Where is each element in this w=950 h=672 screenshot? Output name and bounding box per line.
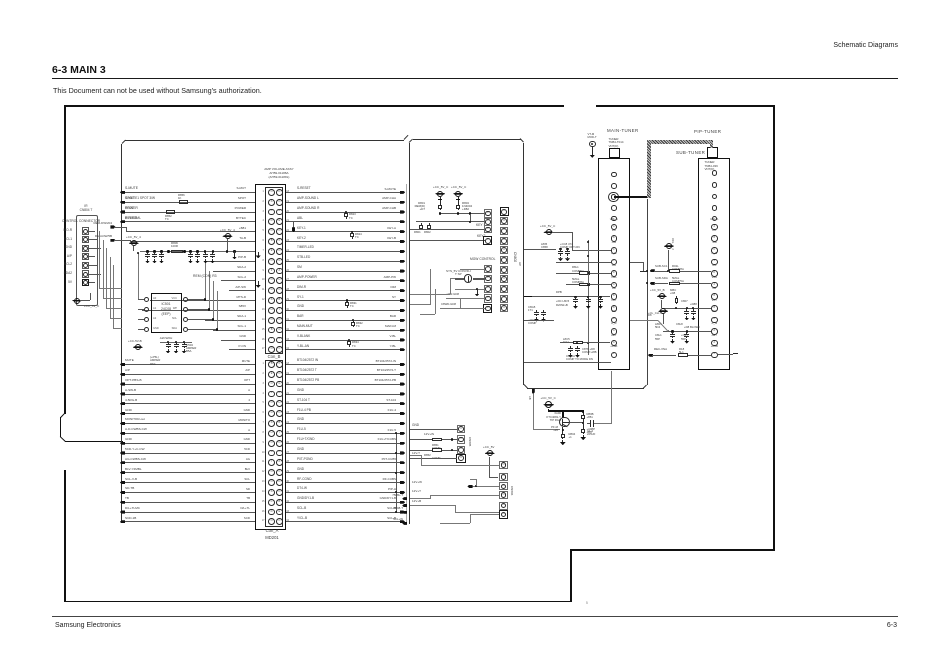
wire row to CN802 pin 7 with ground tap	[455, 288, 485, 291]
wire +DBB row with resistor R18	[648, 354, 653, 357]
power bus wire above IC501	[140, 251, 255, 252]
control connector pin SDA2	[82, 270, 89, 277]
labels C8L1 55P	[655, 334, 662, 337]
label CN806 rotated	[509, 486, 512, 495]
capacitor pair mid-bus	[205, 252, 206, 254]
VBT row components	[532, 295, 610, 298]
wire Con_A row 12 left / net BLV-Y2MBL	[122, 471, 255, 474]
wire Con_B row 10 right / net AMP-POWER	[286, 279, 403, 282]
connector label Con_A	[257, 529, 287, 534]
connector Con_A pin row 6	[268, 410, 275, 417]
wire Con_B row 2 left / net SPOT	[122, 201, 255, 204]
transistor Q801	[562, 410, 564, 412]
RF link wire to PIP tuner	[614, 196, 649, 198]
wire vcc elbow to tuner pin -BB	[552, 231, 573, 234]
ground below resistor	[583, 435, 584, 437]
connector Con_B pin row 1	[268, 189, 275, 196]
wire Con_B row 11 right / net DIM-R	[286, 289, 403, 292]
vcc symbol +CC_5V at CN806	[485, 452, 495, 454]
SUB-TUNER pin UNL-A	[706, 219, 722, 222]
vcc symbol below CN804	[72, 300, 82, 302]
wire Con_B row 16 right / net V-BLANK	[286, 339, 403, 342]
connector Con_A pin row 10	[268, 450, 275, 457]
wire Con_B row 6 right / net KEY-2	[286, 240, 403, 243]
resistor R831 on Con_B row 12	[346, 299, 348, 301]
wire row to CN802 pin 9	[441, 307, 485, 310]
vcc symbol below IC501	[133, 346, 143, 348]
MAIN-TUNER pin UNL-A	[606, 219, 622, 222]
stair wire to CN806 row3 with pad	[472, 485, 499, 488]
wire +DBB row to box2 edge	[524, 361, 611, 364]
capacitor pair lower left	[528, 306, 535, 309]
SUB-TUNER last pin stub	[718, 353, 733, 356]
wire Con_A row 2 left / net A/P	[122, 373, 255, 376]
wire Con_A row 17 right / net Y/CL-B	[286, 520, 403, 523]
stair wires into CN802 lower pins	[429, 269, 432, 305]
IC501 right stair wires to connector	[204, 261, 207, 299]
wire row3 to CN805 with resistor	[410, 449, 432, 452]
wire Con_B row 9 right / net SM	[286, 270, 403, 273]
wire Con_B row 16 left stub / net GND	[221, 339, 255, 342]
SUB-TUNER antenna tab	[707, 147, 718, 157]
pads REM-OUT/IN toward main block	[110, 225, 115, 228]
connector Con_A pin row 15	[268, 499, 275, 506]
control connector stair wires	[98, 231, 101, 288]
shield cable horizontal segment	[647, 140, 713, 144]
wire Con_A row 7 left / net MONITOR-out	[122, 422, 255, 425]
connector CN805 pin field	[457, 425, 465, 433]
wire Con_A row 11 left / net AG-CWBS-CW	[122, 461, 255, 464]
IC501 pin GND (left 4)	[144, 327, 149, 332]
MAIN-TUNER antenna tab	[609, 148, 620, 158]
vertical gnd bus right of Con_A	[395, 433, 398, 512]
wire Con_A row 16 right / net SCL-B	[286, 511, 403, 514]
capacitor at x161.5 on bus	[160, 250, 162, 252]
IC501 pin SDA (right 5)	[183, 327, 188, 332]
connector Con_A pin row 7	[268, 420, 275, 427]
wire Con_B row 3 left / net POWER	[122, 211, 255, 214]
resistor R8L1 to VBA pin	[572, 266, 579, 269]
bus wires to connector CN802	[440, 212, 485, 215]
connector Con_B pin row 14	[268, 317, 275, 324]
connector Con_B pin row 15	[268, 327, 275, 334]
thick supply wire	[548, 409, 549, 411]
connector Con_B pin row 7	[268, 248, 275, 255]
connector Con_A pin row 9	[268, 440, 275, 447]
connector Con_B pin row 12	[268, 297, 275, 304]
wire Con_B row 4 left / net BYTECML	[122, 220, 255, 223]
sheet outline jog horizontal to main block	[65, 441, 123, 442]
wire Con_A row 3 left / net OPT-PBS-B	[122, 383, 255, 386]
wire Con_B row 11 left stub / net A/P-SW	[229, 289, 255, 292]
resistor R80B above collector node	[582, 412, 585, 414]
SUB-TUNER plain pins	[712, 170, 718, 176]
wire Con_A row 9 left / net GND	[122, 442, 255, 445]
bottom caps pair	[570, 346, 571, 348]
sheet outline left jog	[60, 413, 66, 419]
connector Con_A pin row 1	[268, 361, 275, 368]
vcc +CC_5V_C left of main tuner	[543, 231, 553, 233]
wire Con_A row 10 right / net GND	[286, 452, 403, 455]
wire capacitor to tuner bottom	[594, 422, 612, 425]
wire Con_B row 1 left / net S-MUTE	[122, 191, 255, 194]
wire row to CN802 pin 5	[460, 268, 485, 271]
sheet outline step riser	[570, 549, 572, 602]
wire VBT row between tuners	[662, 307, 712, 310]
stair wire Con_A row to CN806 top	[421, 464, 499, 467]
thick entry stub VBT row	[524, 296, 532, 298]
wire Con_A row 14 left / net SD-TB	[122, 491, 255, 494]
control connector pin SCL2	[82, 262, 89, 269]
connector MD201 Con_B inner frame	[265, 187, 283, 354]
wire Con_A row 1 left / net MUTE	[122, 363, 255, 366]
MAIN-TUNER pin AET	[606, 335, 622, 338]
junction dots on shield-edge wire	[646, 270, 648, 272]
wire Con_A row 16 left / net D/L+TLMC	[122, 511, 255, 514]
MAIN-TUNER pin A_I1	[606, 253, 622, 256]
wire Con_B row 13 left stub / net S85V	[142, 309, 255, 312]
resistor R824 on Con_B row 5	[351, 231, 353, 233]
wire Con_B row 14 left stub / net SDA-1	[205, 319, 255, 322]
vcc +CC_5V_B symbol	[657, 295, 667, 297]
vcc +CL_A_2 symbol	[664, 245, 674, 247]
wire KEY 1 row	[410, 228, 485, 231]
resistor R856 on SPOT row	[179, 200, 188, 204]
wire Con_B row 13 right / net GND	[286, 309, 403, 312]
connector Con_B pin row 8	[268, 258, 275, 265]
MAIN-TUNER pin GG	[606, 265, 622, 268]
connector Con_A pin row 14	[268, 489, 275, 496]
wire Con_B row 4 right / net ABL	[286, 220, 403, 223]
wire Con_A row 11 right / net P0T-PGND	[286, 461, 403, 464]
wire Con_B row 9 left stub / net SDA-2	[213, 270, 255, 273]
shield cable drop to SUB tuner tab	[710, 140, 714, 148]
connector Con_A pin row 5	[268, 400, 275, 407]
label S-MUTE1 SPOT 3/W	[125, 197, 155, 200]
middle block box top-right chamfer	[520, 139, 524, 143]
SUB-TUNER pin A_I2	[706, 323, 722, 326]
wire Con_B row 15 left stub / net SCL-1	[213, 329, 255, 332]
wire Con_A row 10 left / net 5CD-Y+C-CW	[122, 452, 255, 455]
resistor pair left	[421, 223, 422, 225]
connector Con_B pin row 11	[268, 287, 275, 294]
wire Con_B row 5 right / net KEY-1	[286, 230, 403, 233]
wire Con_B row4 elbow stub	[292, 222, 295, 229]
SUB-TUNER pin GG	[706, 265, 722, 268]
wire Con_B row 8 left stub / net PIP-B	[205, 260, 255, 263]
footer: Samsung Electronics	[55, 622, 121, 630]
connector Con_A pin row 16	[268, 509, 275, 516]
wire Con_A row 8 right / net F1U-5	[286, 432, 403, 435]
tuner section right edge wire	[647, 199, 648, 385]
IC501 pin SCL (right 6)	[183, 317, 188, 322]
wire DG pin to SUB tuner (diagonal)	[630, 319, 658, 322]
label MAIN-TUNER	[607, 129, 639, 134]
stray mark	[586, 602, 588, 605]
wire Con_A row 4 right / net GND	[286, 393, 403, 396]
resistor R834 on Con_B row 16	[348, 339, 350, 341]
resonator X801	[464, 274, 472, 282]
wire Con_A row 1 right / net BT104/2572 IN	[286, 363, 403, 366]
footer rule	[52, 616, 898, 617]
resistor R832 on Con_B row 14	[352, 319, 354, 321]
wire Con_B row 14 right / net BAR	[286, 319, 403, 322]
footer: page number 6-3	[867, 622, 897, 630]
shield cable vertical segment	[647, 140, 651, 198]
control connector pin SCL1	[82, 236, 89, 243]
IC501 left riser wire	[137, 253, 140, 299]
wire resonator to CN802	[455, 278, 464, 279]
wire A_I1 pin through-right with gnd tick	[630, 261, 643, 264]
stair wire to CN806 row6	[440, 522, 470, 525]
connector Con_B pin row 9	[268, 268, 275, 275]
SUB-TUNER pin VBA	[706, 277, 722, 280]
label cluster below-left of IC501	[150, 356, 159, 359]
wire Con_A row 4 left / net A-SW-B	[122, 393, 255, 396]
capacitors below IC501	[160, 341, 192, 344]
main block box top edge	[125, 140, 404, 141]
wire Con_A row 17 left / net SCD-1B	[122, 520, 255, 523]
middle block box top edge	[413, 139, 521, 140]
connector MD201 outer frame	[255, 184, 286, 530]
tuner TU802 SUB-TUNER box	[698, 158, 730, 371]
resistor below collector node	[582, 423, 585, 427]
label MGW CONTROL	[470, 258, 495, 262]
capacitor pair right of R806	[189, 250, 191, 252]
connector Con_B pin row 10	[268, 277, 275, 284]
main block box right edge (scan double line)	[405, 184, 408, 524]
connector Con_B pin row 3	[268, 209, 275, 216]
vcc symbol +CC_5V_C pair	[435, 193, 445, 195]
wire row to CN802 pin 8	[446, 297, 485, 300]
capacitor at x147.5 on bus	[146, 250, 148, 252]
MAIN-TUNER RF input pin	[608, 192, 619, 203]
main block box top-left chamfer	[121, 139, 126, 143]
wire Con_A row 9 right / net F1U+T/GND	[286, 442, 403, 445]
IC501 pin A1 (left 2)	[144, 307, 149, 312]
vcc +CC_5V_C at transistor	[543, 404, 554, 406]
connector CN802 pin field right column	[500, 207, 509, 216]
wire Con_A row 2 right / net BT104/2572 T	[286, 373, 403, 376]
connector Con_A pin row 11	[268, 459, 275, 466]
connector Con_B pin row 2	[268, 199, 275, 206]
VT test point symbol	[588, 133, 595, 136]
control connector pin MO-R	[82, 227, 89, 234]
ground on bus near connector	[233, 250, 235, 252]
wire Con_B row 12 left stub / net MTS-D	[150, 299, 255, 302]
connector Con_B pin row 6	[268, 238, 275, 245]
connector Con_B pin row 17	[268, 346, 275, 353]
sheet outline right edge	[773, 105, 775, 551]
MAIN-TUNER pin VBA	[606, 277, 622, 280]
SUB-TUNER pin DG	[706, 311, 722, 314]
heading rule	[52, 78, 898, 80]
wire Con_A row 13 left / net SCL-V-B	[122, 481, 255, 484]
connector Con_B pin row 5	[268, 228, 275, 235]
diode D801 stack	[439, 197, 442, 203]
wire Con_A row 15 right / net GND/DY1-B	[286, 501, 403, 504]
wire Con_B row 1 right / net S-RESET	[286, 191, 403, 194]
connector label MD201	[257, 536, 287, 541]
wire row2 to CN805 with resistor	[410, 438, 432, 441]
wire Con_B row 2 right / net AMP-SOUND L	[286, 201, 403, 204]
connector Con_A pin row 3	[268, 381, 275, 388]
connector CN806 pin field	[499, 461, 507, 469]
MAIN-TUNER pin AB	[606, 288, 622, 291]
label CN804	[76, 205, 96, 208]
wire Con_A row 12 right / net GND	[286, 471, 403, 474]
tuner section bottom-left chamfer	[523, 384, 527, 388]
wire row4 to CN805	[410, 457, 457, 460]
wire Con_B row 6 left from control connector	[122, 239, 130, 242]
wire Con_A row 3 right / net BT104/2572 PB	[286, 383, 403, 386]
ground stub near Con_B row7	[258, 252, 259, 255]
caps on VBT row	[686, 307, 688, 309]
wire Con_A row 14 right / net DT4-W	[286, 491, 403, 494]
stair wire to CN806 row4	[430, 494, 499, 497]
stair wire to CN806 row5	[454, 505, 457, 512]
capacitor C1-2 on collector node	[590, 420, 591, 427]
label CONTROL CONNECTOR	[62, 220, 100, 224]
wire Con_B row 3 right / net AMP-SOUND R	[286, 211, 403, 214]
resistor 5MAL to AB pin	[572, 278, 579, 281]
connector Con_A pin row 13	[268, 479, 275, 486]
sheet outline upper-left edge	[64, 105, 66, 414]
authorization note	[53, 87, 262, 95]
wire DG row left	[524, 319, 554, 322]
connector Con_A pin row 8	[268, 430, 275, 437]
connector CN802 pin field left column	[484, 209, 492, 217]
control connector pin A/P	[82, 253, 89, 260]
wire from pad down/right to transistor base	[532, 394, 535, 430]
SUB-TUNER pin AB	[706, 288, 722, 291]
MAIN-TUNER pin DG	[606, 311, 622, 314]
wire Con_B row 17 left stub / net P-ON	[229, 348, 255, 351]
label CN802 rotated	[512, 252, 516, 262]
SUB-TUNER pin A_I1	[706, 253, 722, 256]
capacitor column x588	[587, 240, 590, 355]
SUB-TUNER pin VBT	[706, 300, 722, 303]
middle block box right edge	[523, 143, 524, 386]
wire GND row to CN805	[410, 428, 457, 431]
wire Con_A row 7 right / net GND	[286, 422, 403, 425]
wire Con_A row 5 right / net ST-104 T	[286, 402, 403, 405]
wire Con_A row 15 left / net TB	[122, 501, 255, 504]
resistor R823 on Con_B row 3	[345, 211, 347, 213]
wire Con_B row 17 right / net Y-BL-AN	[286, 348, 403, 351]
wire Con_B row 7 right / net TIMER-LED	[286, 250, 403, 253]
edge pads left of box2 lower	[402, 497, 407, 500]
pad below tuner-section bottom edge	[532, 389, 535, 394]
capacitor at x154.5 on bus	[153, 250, 155, 252]
MAIN-TUNER pin A_I2	[606, 323, 622, 326]
tuner section bottom edge	[527, 388, 644, 389]
vcc symbol +CC_5V_4	[129, 242, 139, 244]
connector MD201 Con_A inner frame	[265, 360, 283, 528]
IC501 pin A2 (left 3)	[144, 317, 149, 322]
tuner section bottom-right chamfer	[643, 384, 647, 388]
IC501 pin WP (right 7)	[183, 307, 188, 312]
page title: Schematic Diagrams	[778, 42, 898, 50]
middle block box top-left chamfer	[409, 138, 414, 142]
heading 6-3 MAIN 3	[52, 65, 106, 76]
sheet outline lower-left edge	[64, 470, 66, 602]
pad SUB-SC1 and resistor R02L	[650, 269, 655, 272]
sheet outline top edge left segment	[64, 105, 564, 107]
connector label Con_B	[259, 355, 289, 360]
control connector pin 5V	[82, 279, 89, 286]
label CN805 rotated	[467, 437, 470, 446]
control connector pin GND	[82, 245, 89, 252]
MAIN-TUNER pin -BB	[606, 242, 622, 245]
MAIN-TUNER plain pins	[611, 172, 617, 178]
resistor R18 zigzag	[679, 348, 684, 351]
label C?DLA COMP TO MODE DN	[566, 355, 575, 358]
middle block box left edge	[409, 143, 410, 525]
diode D802 stack	[457, 197, 460, 203]
junction dots on bus	[167, 250, 169, 252]
wire Con_B row 15 right / net MAIN-MUT	[286, 329, 403, 332]
label REM CON R3	[193, 275, 217, 279]
main block box top-right tick	[404, 135, 409, 140]
label SUB-TUNER	[676, 151, 705, 156]
label PIP-TUNER	[694, 130, 721, 135]
connector label AMP VOLUME ASSY	[256, 168, 302, 171]
transistor emitter resistor R804	[561, 427, 564, 432]
IC IC501 24C08 EEPROM	[151, 293, 183, 334]
SUB-TUNER pin -BB	[706, 242, 722, 245]
resistor R806 on bus	[171, 250, 183, 254]
connector Con_B pin row 4	[268, 218, 275, 225]
connector Con_A pin row 12	[268, 469, 275, 476]
bottom cluster L8C5	[563, 338, 570, 341]
main block box left edge	[121, 144, 122, 523]
sheet outline step: bottom of right bay	[570, 549, 775, 551]
ground under emitter resistor	[562, 440, 563, 442]
SUB-TUNER pin +DBB	[706, 346, 722, 349]
sheet outline bottom edge	[64, 601, 572, 603]
IC501 pin A0 (left 1)	[144, 297, 149, 302]
wire KEY 2 row	[410, 239, 485, 242]
wire Con_A row 6 left / net GND	[122, 412, 255, 415]
MAIN-TUNER pin VBT	[606, 300, 622, 303]
wire Con_A row 8 left / net A-D-CWBS-CW	[122, 432, 255, 435]
ground stub near Con_B row10	[258, 281, 259, 284]
caps on A_I2 row	[663, 330, 711, 333]
control connector CN804 enclosure	[76, 215, 98, 306]
wire Con_B row 10 left stub / net SCL-2	[221, 279, 255, 282]
connector Con_B pin row 13	[268, 307, 275, 314]
pad SUB-SDA and resistor 5MAL	[650, 282, 655, 285]
label A2CW2H below IC501	[153, 337, 179, 340]
connector Con_A pin row 17	[268, 518, 275, 525]
connector Con_B pin row 16	[268, 337, 275, 344]
wire Con_A row 6 right / net F1U-4 PB	[286, 412, 403, 415]
SUB-TUNER pin AET	[706, 335, 722, 338]
sheet outline top edge right segment	[596, 105, 774, 107]
vcc +CL_CH-T symbol	[658, 310, 668, 312]
resistor MBC	[670, 289, 676, 292]
tuner TU801 MAIN-TUNER box	[598, 158, 629, 370]
IC501 pin VCC (right 8)	[183, 297, 188, 302]
wire Con_B row 8 right / net STB-LED	[286, 260, 403, 263]
resistor R852 on POWER row	[166, 210, 175, 214]
connector Con_A pin row 2	[268, 371, 275, 378]
vcc symbol near connector	[222, 235, 232, 237]
MAIN-TUNER pin DA	[606, 230, 622, 233]
wire Con_B row 12 right / net SY-1	[286, 299, 403, 302]
SUB-TUNER pin DA	[706, 230, 722, 233]
